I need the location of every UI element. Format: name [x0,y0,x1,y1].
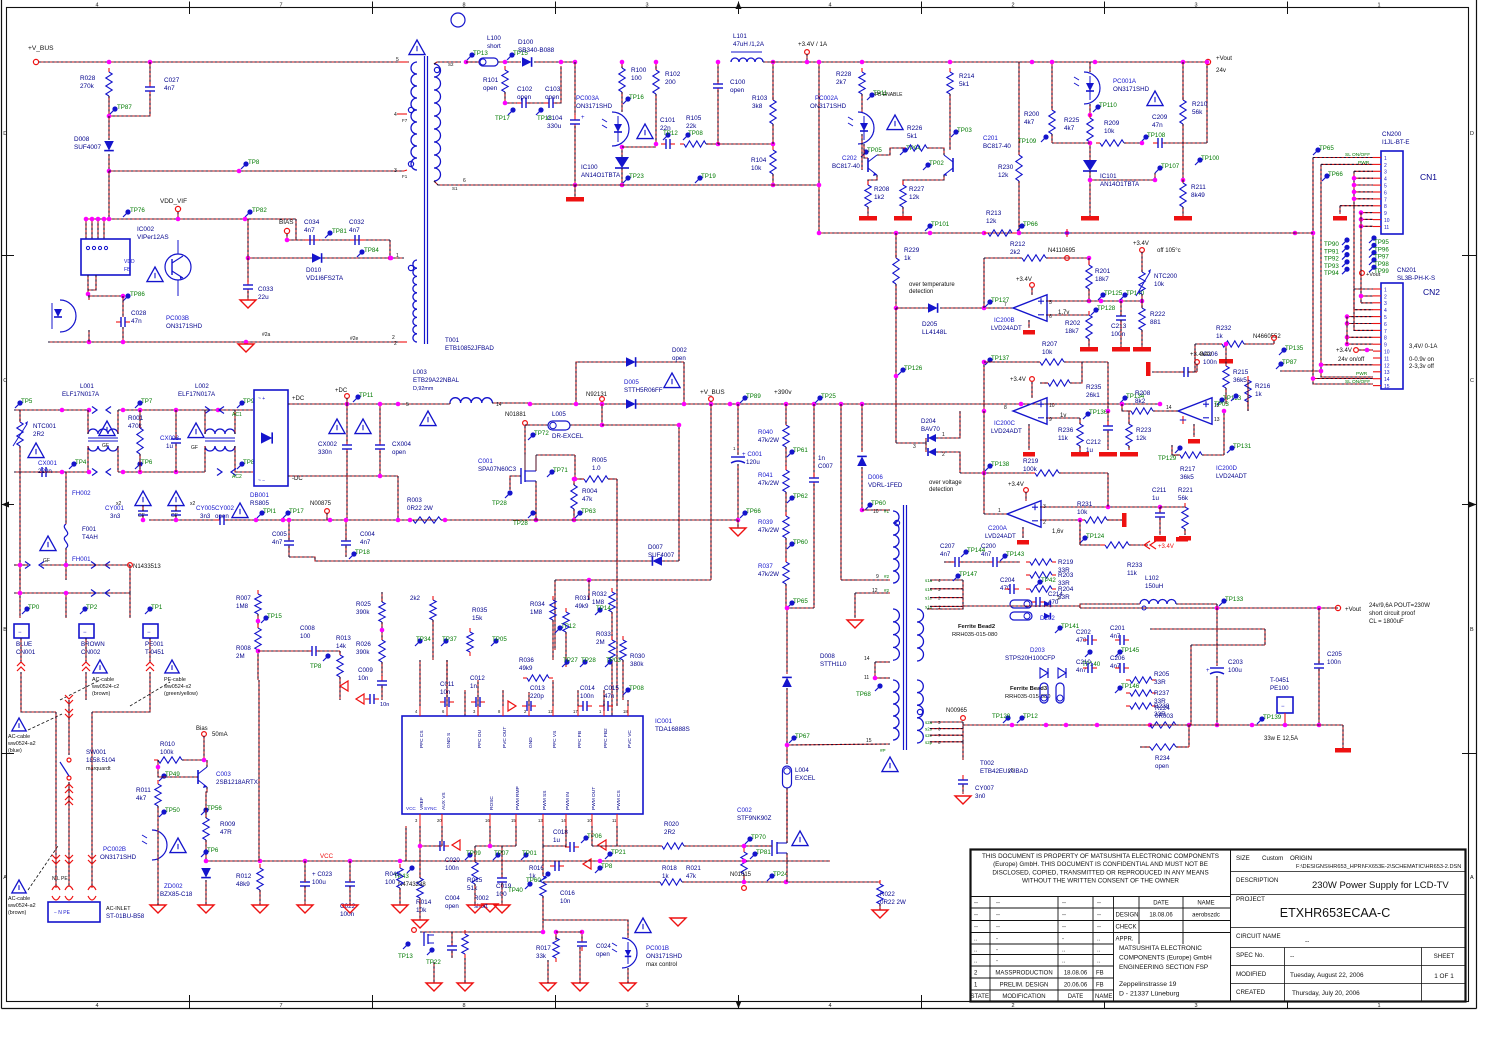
svg-text:10k: 10k [416,907,427,914]
wire ic001 pin dn4 [515,826,517,846]
inductor L102 [1140,600,1176,605]
junction [344,518,349,523]
svg-text:4n7: 4n7 [1110,663,1121,670]
warning triangle IC002 [147,267,163,282]
test point TP21 [607,851,612,856]
capacitor C024 [581,937,583,942]
svg-text:C001: C001 [478,458,493,465]
svg-text:390k: 390k [356,609,370,616]
capacitor C208 [1179,371,1184,373]
resistor R235 [1044,382,1048,384]
ground bar snub2 [1176,537,1188,542]
harness pin wire5 [1347,323,1373,325]
crossing chevron n3 [91,562,96,569]
wire C201 emitter down [903,175,944,185]
svg-text:ON3171SHD: ON3171SHD [100,854,137,861]
wire T002 pin9 h [841,579,855,581]
svg-text:PWM RMP: PWM RMP [515,786,521,810]
svg-text:TP6: TP6 [141,459,153,466]
svg-text:AC-cable: AC-cable [92,677,114,683]
junction [1140,299,1145,304]
fuse F001 [64,524,67,548]
svg-text:− N PE: − N PE [54,910,71,916]
svg-text:TP08: TP08 [629,685,644,692]
junction [1106,505,1111,510]
svg-text:(brown): (brown) [92,691,110,697]
connector AC-INLET [48,902,100,922]
transformer T002 lower primary [893,680,899,740]
crossing chevron L002b [219,407,224,414]
ground bias 400 [392,905,408,913]
svg-text:SB340-B088: SB340-B088 [518,47,555,54]
svg-text:SPEC No.: SPEC No. [1236,952,1264,959]
junction [982,360,987,365]
spec col line [1284,948,1286,1002]
junction [620,145,625,150]
svg-text:TP05: TP05 [492,636,507,643]
wire R229 down [895,284,897,308]
svg-text:1: 1 [998,508,1001,514]
junction [102,217,107,222]
test point TP86 [125,293,130,298]
wire D010 rail [248,257,404,259]
junction [18,563,23,568]
test point TP23 [625,175,630,180]
wire ic001 pin up5 [528,692,530,706]
test point TP60c [867,502,872,507]
svg-text:C209: C209 [1152,114,1168,121]
junction [1359,294,1364,299]
test point TP7 [137,400,142,405]
wire fb up [983,258,985,308]
wire D007 up [678,425,680,561]
svg-text:APPR.: APPR. [1116,937,1134,943]
zone tick top [738,2,740,15]
svg-text:TP2: TP2 [86,604,98,611]
svg-text:BC817-40: BC817-40 [983,143,1011,150]
crossing chevron L001a [92,407,97,414]
ground belowic1 [467,905,483,913]
svg-text:4n7: 4n7 [940,551,951,558]
junction [348,859,353,864]
wire R025 up [381,592,383,602]
harness pin 12 [1321,364,1373,366]
junction [573,477,578,482]
wire control bus 233 [819,232,1313,234]
svg-text:-: - [996,948,998,954]
wire C022 down [349,886,351,905]
wire sec out v [1080,604,1110,608]
svg-text:50mA: 50mA [212,732,228,738]
svg-text:A: A [1470,875,1474,881]
svg-text:C003: C003 [216,771,231,778]
wire T002 pin15 [787,744,890,745]
wire tapu v [962,580,964,606]
ground G4 [572,983,588,991]
svg-text:PRELIM. DESIGN: PRELIM. DESIGN [1000,983,1049,989]
wire D204 common [896,442,926,444]
svg-text:15: 15 [511,818,516,823]
test point TP100 [1197,157,1202,162]
svg-text:47uH /1,2A: 47uH /1,2A [733,41,765,48]
svg-text:10n: 10n [380,702,389,708]
wire pins up1 [464,690,466,716]
zone tick left [2,504,15,506]
svg-text:C204: C204 [1000,577,1015,584]
test point TP91 [1344,245,1349,250]
svg-text:TP87: TP87 [1282,359,1297,366]
desc row line [1231,894,1466,896]
svg-text:+3.4V / 1A: +3.4V / 1A [798,41,828,48]
svg-text:3: 3 [1194,1003,1197,1009]
wire R227 gnd [902,207,904,216]
resistor R232 [1218,343,1222,345]
wire T001 pin5 [399,61,407,63]
test point TP133c [1221,598,1226,603]
wire R005 drop [574,455,576,479]
wire row580 left down [554,580,556,650]
svg-text:TP6: TP6 [207,847,219,854]
svg-text:N01015: N01015 [730,872,752,878]
test point TP11b [355,394,360,399]
top mid marker [736,2,742,10]
CN2 pin stub [1373,336,1381,338]
svg-text:TP1: TP1 [151,604,163,611]
svg-text:4: 4 [828,3,831,9]
wire CX001 row2 [48,471,62,473]
svg-text:Bias: Bias [196,726,208,732]
title block outer [971,850,1466,1002]
svg-text:230W Power Supply for LCD-TV: 230W Power Supply for LCD-TV [1312,880,1449,891]
wire C00x common [289,557,346,561]
junction [982,231,987,236]
resistor R039 [785,512,787,516]
resistor R037 [785,558,787,562]
svg-text:PE-cable: PE-cable [164,677,186,683]
wire R010 left [157,760,159,767]
svg-text:R039: R039 [758,519,773,526]
svg-text:1: 1 [1384,156,1387,162]
capacitor C028 [116,321,121,323]
wire ref row [622,146,656,148]
svg-text:8k49: 8k49 [1191,192,1205,199]
junction [1120,402,1125,407]
svg-text:R040: R040 [758,429,773,436]
junction [541,930,546,935]
wire C102 C103 [528,102,547,104]
wire R216 vert [1247,380,1249,411]
wire plusC row [1046,403,1122,405]
wire T002 pin9 v [840,404,842,580]
ground bar R221 [1179,536,1191,541]
svg-text:TP135: TP135 [1285,345,1304,352]
svg-text:..: .. [1097,959,1101,965]
wire opampA out [984,513,1007,515]
capacitor C022 [349,877,351,882]
svg-text:+ C023: + C023 [312,871,333,878]
svg-text:IC001: IC001 [655,718,672,725]
wire PC003B down [88,330,90,342]
svg-text:881: 881 [1150,319,1161,326]
test point TP36 [203,849,208,854]
svg-text:DATE: DATE [1153,901,1169,907]
inductor L100 pill [479,58,498,66]
test point TP14 [597,607,602,612]
red arrow C011r [356,694,364,704]
svg-text:4n7: 4n7 [360,539,371,546]
optocoupler PC003A symbol [612,112,629,146]
junction [503,101,508,106]
op-amp IC002 VIPer12AS box [81,239,130,275]
test point TP8 [243,161,248,166]
wire CY001 down [142,515,144,520]
svg-text:TP82: TP82 [252,207,267,214]
junction [1215,606,1220,611]
resistor R102 [655,66,657,70]
bottom mid marker [736,1001,742,1009]
wire R102 bottom [655,94,657,144]
svg-text:11: 11 [864,675,869,681]
capacitor C001 bulk [731,456,745,458]
choke L002 core [205,437,235,439]
wire C001 bottom [737,464,739,520]
svg-text:4n7: 4n7 [1110,633,1121,640]
zone tick bottom [738,995,740,1009]
wire PE100 down [1284,713,1286,725]
ground bar snub1 [1154,537,1166,542]
diode D204a [928,434,936,442]
diode D204b [928,448,936,456]
resistor R030 [622,636,624,640]
svg-text:7: 7 [279,1003,282,1009]
test point TP128 [1093,307,1098,312]
svg-text:TP60: TP60 [793,539,808,546]
svg-text:TP100: TP100 [1201,155,1220,162]
junction [716,142,721,147]
wire minus corner [397,476,399,520]
resistor R219c [1026,561,1030,563]
capacitor CY007 [962,775,964,780]
test point TP147 [955,573,960,578]
svg-text:+3.4V: +3.4V [1008,482,1024,488]
svg-text:BAV70: BAV70 [921,426,940,433]
junction [121,408,126,413]
test point TP63 [577,510,582,515]
junction [87,408,92,413]
wire C100 top [717,62,719,82]
test point TP139 [1259,716,1264,721]
wire gbi2 [501,883,503,905]
wire N466 stub [1273,341,1275,344]
capacitor C209 [1153,142,1158,144]
warning triangle GF2 [188,423,204,438]
svg-text:3: 3 [645,3,648,9]
svg-text:TP60: TP60 [526,877,541,884]
svg-text:PWM IN: PWM IN [565,792,571,810]
IC001 bottom pin PWM OUT [591,814,593,826]
svg-text:18k7: 18k7 [1065,328,1079,335]
svg-text:WITHOUT THE WRITTEN CONSENT OF: WITHOUT THE WRITTEN CONSENT OF THE OWNER [1022,878,1179,885]
junction [534,518,539,523]
mosfet Q74 [423,932,425,946]
wire R005 right [608,478,617,480]
zone tick top [189,2,191,15]
svg-text:L001: L001 [80,383,94,390]
wire T001 secondary bottom [434,181,462,185]
zone tick top [555,2,557,15]
svg-text:-: - [996,937,998,943]
svg-text:R233: R233 [1127,562,1143,569]
resistor R218 [1182,416,1184,420]
wire tap s2s [930,728,963,730]
node N1433513 [128,563,133,568]
wire chev row2 [14,592,130,594]
junction [948,60,953,65]
test point TP140b [1122,292,1127,297]
junction [60,408,65,413]
test point TP6b [325,653,330,658]
warning triangle C002 [792,831,808,846]
wire R201 drop [1088,258,1090,265]
ground bias 158 [150,905,166,913]
test point TP90 [1344,237,1349,242]
wire tap s2a [930,721,963,723]
svg-text:0R003: 0R003 [1155,713,1174,720]
node +3.4V top [805,50,810,55]
capacitor C027 [149,82,151,87]
svg-text:C207: C207 [940,543,955,550]
harness wire v1 top [1313,157,1373,159]
wire ic001 pin dn2 [441,826,443,846]
wire NTC top [19,410,21,422]
svg-text:TP124: TP124 [1086,533,1105,540]
ground bar C213 [1112,347,1130,352]
svg-text:D - 21337 Lüneburg: D - 21337 Lüneburg [1119,991,1180,998]
svg-text:PVC VC: PVC VC [627,730,633,748]
resistor R227 [902,181,904,185]
wire R236 top [1079,418,1081,424]
svg-text:L002: L002 [195,383,209,390]
svg-text:C033: C033 [258,286,274,293]
svg-text:2: 2 [1384,294,1387,300]
wire 3v4 stub [1196,364,1198,372]
junction [90,217,95,222]
junction [237,169,242,174]
junction [817,231,822,236]
resistor R200 [1051,106,1053,110]
wire R026 down [381,662,383,680]
svg-text:AC-cable: AC-cable [8,896,30,902]
test point TP92 [1344,252,1349,257]
ground bar IC200D [1188,439,1200,444]
svg-text:2: 2 [1384,163,1387,169]
svg-text:R208: R208 [1135,390,1151,397]
resistor R010 [154,759,158,761]
wire R200 top [1051,62,1053,110]
svg-text:S1: S1 [452,186,458,191]
svg-text:PC001B: PC001B [646,945,669,952]
op-amp IC200A [1007,501,1041,528]
sheet edge left [1,0,3,1009]
svg-text:C: C [3,378,7,384]
svg-text:1k2: 1k2 [874,194,885,201]
svg-text:TP63: TP63 [581,508,596,515]
resistor R004 [573,481,575,485]
svg-text:PVC OUT: PVC OUT [502,727,508,748]
svg-text:5k1: 5k1 [907,133,918,140]
wire tapu s1a [930,579,963,581]
test point TP28b [507,490,512,495]
svg-text:--: -- [996,901,1000,907]
transformer T001 primary winding [411,62,417,170]
bridge DB001 diode [261,432,272,443]
junction [572,477,577,482]
junction [860,508,865,513]
svg-text:R234: R234 [1155,755,1170,762]
power chevron +3.4V [1144,541,1156,549]
junction [817,183,822,188]
sheet edge right [1476,0,1478,1009]
harness v6b [1354,289,1373,310]
transistor symbol Q-viper [165,254,191,280]
svg-text:+DC: +DC [335,388,348,394]
svg-text:R007: R007 [236,595,251,602]
svg-text:TP28: TP28 [581,657,596,664]
svg-text:R221: R221 [1178,487,1193,494]
wire C211 down [1159,518,1161,535]
test point TP98 [1371,257,1376,262]
wire R235 left [1040,382,1048,384]
wire tapu s1s [930,588,963,590]
svg-text:NAME: NAME [1197,901,1214,907]
svg-text:TP60: TP60 [871,500,886,507]
svg-text:TP7: TP7 [141,398,153,405]
capacitor C102 [517,102,522,104]
wire C023 down [304,886,306,905]
svg-text:LVD24ADT: LVD24ADT [1216,473,1247,480]
wire R219 row [960,472,1035,474]
svg-text:TP8: TP8 [243,459,255,466]
test point TPI1 [259,510,264,515]
capacitor C019 [501,873,503,878]
svg-text:1u: 1u [1152,495,1159,502]
zone tick right [1462,504,1477,506]
svg-text:ETB29A22NBAL: ETB29A22NBAL [413,377,460,384]
wire gbi1 [474,884,476,905]
resistor R041 [785,466,787,470]
connector CN1 [1381,151,1403,234]
junction [982,409,987,414]
test point TP87 [112,106,117,111]
svg-text:13: 13 [1214,417,1220,423]
test point TP0 [24,606,29,611]
svg-text:1n: 1n [470,683,477,690]
svg-text:MODIFIED: MODIFIED [1236,971,1267,978]
svg-text:CX001: CX001 [38,460,57,467]
node N00875 terminal [325,509,330,514]
test point TP134 [1122,395,1127,400]
test point TP16 [625,96,630,101]
svg-text:100: 100 [631,75,642,82]
svg-text:FB: FB [1096,971,1104,977]
junction [107,60,112,65]
capacitor C007 [813,473,815,478]
wire cn002 drop [85,672,87,700]
capacitor C207 [950,561,955,563]
test point TP97 [1371,250,1376,255]
svg-text:R203: R203 [1058,572,1074,579]
svg-text:D: D [1470,131,1474,137]
